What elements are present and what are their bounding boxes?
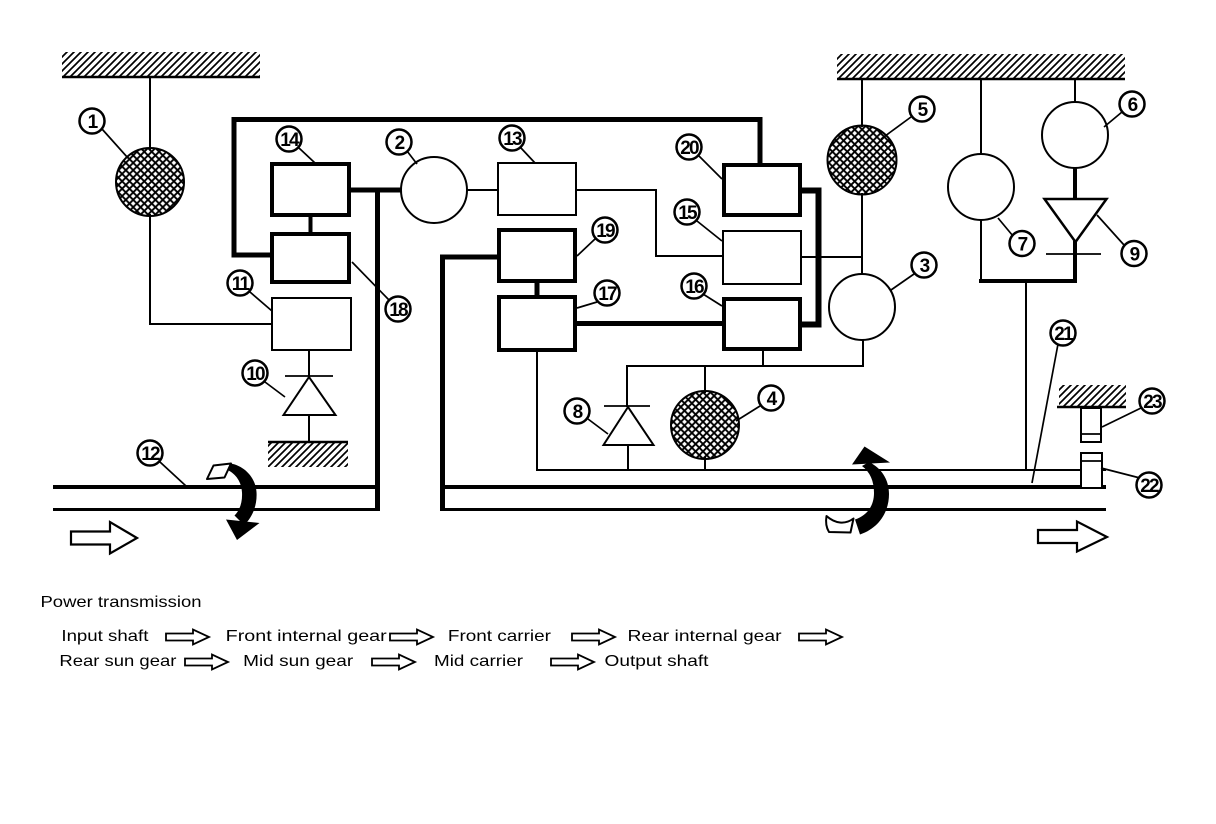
leader 22 [1101, 468, 1140, 478]
leader 4 [736, 406, 760, 421]
leader 23 [1102, 408, 1141, 427]
label 17 [595, 281, 620, 306]
input shaft 12 top line [53, 485, 379, 489]
wire wall to clutch 1 [149, 77, 151, 150]
legend arrow r2a1 [185, 655, 228, 670]
wall hatch small right [1057, 385, 1126, 407]
svg-text:14: 14 [280, 130, 300, 151]
svg-text:Rear sun gear: Rear sun gear [59, 653, 177, 670]
wire wall to circle 6 [1074, 79, 1076, 103]
block arrow input [71, 522, 137, 554]
svg-text:13: 13 [503, 129, 522, 150]
leader 12 [160, 462, 186, 486]
wall hatch top-right [837, 54, 1125, 79]
bearing block 22 [1081, 453, 1102, 488]
svg-text:23: 23 [1143, 392, 1162, 413]
svg-text:Rear internal gear: Rear internal gear [628, 628, 783, 645]
label 23 [1140, 389, 1165, 414]
svg-text:Mid carrier: Mid carrier [434, 653, 524, 670]
wire clutch 4 top stub [704, 366, 706, 393]
leader 2 [407, 151, 417, 164]
box 16 [724, 299, 800, 349]
one-way clutch 9 [1045, 199, 1107, 254]
svg-text:16: 16 [685, 277, 704, 298]
box 15 [723, 231, 801, 284]
label 20 [677, 135, 702, 160]
legend arrow r1a1 [166, 630, 209, 645]
svg-text:18: 18 [389, 300, 408, 321]
wire wall to clutch 5 [861, 79, 863, 127]
wire mid collector y366 [627, 366, 864, 407]
box 14 [272, 164, 349, 215]
circle 2 [401, 157, 467, 223]
one-way clutch 10 [284, 351, 336, 443]
label 2 [387, 130, 412, 155]
block arrow output [1038, 522, 1107, 552]
label 11 [228, 271, 253, 296]
rotation arrow output shaft [826, 447, 890, 535]
wire circle 2 to box 13 [465, 189, 498, 191]
wire joining circle 7 and clutch 9 [979, 279, 1077, 283]
svg-text:8: 8 [573, 402, 583, 423]
svg-text:12: 12 [141, 444, 160, 465]
svg-text:3: 3 [920, 256, 930, 277]
wire box 16 bottom stub [762, 351, 764, 366]
label 6 [1120, 92, 1145, 117]
wire node down to output shaft line [1025, 281, 1027, 470]
box 20 [724, 165, 800, 215]
label 22 [1137, 473, 1162, 498]
svg-text:Input shaft: Input shaft [61, 628, 149, 645]
svg-text:2: 2 [395, 133, 405, 154]
thick bracket box 20 to box 16 [802, 191, 819, 325]
svg-text:11: 11 [232, 274, 251, 295]
legend arrow r2a2 [372, 655, 415, 670]
input shaft 12 bottom line [53, 508, 379, 511]
leader 7 [998, 218, 1013, 236]
box 11 [272, 298, 351, 350]
output shaft bottom line [443, 508, 1106, 511]
clutch 5 crosshatched [828, 126, 897, 195]
wire circle 7 down [980, 219, 982, 283]
label 3 [912, 253, 937, 278]
svg-text:19: 19 [596, 221, 615, 242]
label 5 [910, 97, 935, 122]
svg-text:Power transmission: Power transmission [41, 594, 202, 611]
wire box 15 to node x862 [802, 256, 863, 258]
output shaft top line [440, 485, 1106, 489]
leader 19 [577, 239, 595, 256]
svg-text:Front carrier: Front carrier [448, 628, 552, 645]
stub box 19 to box 17 [535, 282, 540, 297]
clutch 4 crosshatched [671, 391, 739, 459]
label 16 [682, 274, 707, 299]
leader 16 [703, 294, 722, 306]
leader 21 [1032, 344, 1058, 483]
label 19 [593, 218, 618, 243]
label 8 [565, 399, 590, 424]
wire horizontal collector above output shaft [536, 469, 1106, 471]
wall hatch top-left [62, 52, 260, 77]
leader 5 [881, 117, 911, 139]
leader 14 [299, 148, 315, 163]
thick vertical output shaft left end to box 19 [443, 257, 499, 511]
label 9 [1122, 241, 1147, 266]
leader 8 [588, 419, 608, 434]
label 18 [386, 297, 411, 322]
box 13 [498, 163, 576, 215]
svg-text:20: 20 [680, 138, 699, 159]
svg-text:17: 17 [598, 284, 617, 305]
box 17 [499, 297, 575, 350]
rotation arrow input shaft [207, 464, 260, 541]
wire one-way clutch 8 bottom stub [627, 445, 629, 470]
thick vertical to input shaft end [375, 188, 380, 511]
one-way clutch 8 [604, 406, 654, 445]
label 21 [1051, 321, 1076, 346]
svg-text:7: 7 [1018, 235, 1028, 256]
leader 15 [697, 221, 722, 241]
leader 20 [699, 156, 722, 179]
svg-text:Front internal gear: Front internal gear [226, 628, 388, 645]
leader 1 [102, 129, 128, 158]
wire box 17 down [536, 352, 538, 470]
leader 10 [265, 382, 285, 397]
wire clutch 4 bottom stub [704, 457, 706, 470]
svg-text:9: 9 [1130, 245, 1140, 266]
wire clutch 5 to circle 3 [861, 193, 863, 275]
circle 6 [1042, 102, 1108, 168]
wire box 13 to box 15 [577, 190, 722, 256]
thick frame from box 18 over top to box 20 [234, 120, 760, 256]
clutch 1 crosshatched [116, 148, 184, 216]
svg-text:6: 6 [1128, 95, 1138, 116]
bearing block 23 [1081, 408, 1101, 442]
leader 6 [1104, 112, 1122, 127]
label 15 [675, 200, 700, 225]
thick wire box 17 to box 16 [577, 321, 722, 326]
circle 3 [829, 274, 895, 340]
label 13 [500, 126, 525, 151]
svg-text:21: 21 [1054, 324, 1074, 345]
leader 11 [250, 292, 272, 311]
leader 3 [891, 274, 914, 290]
label 14 [277, 127, 302, 152]
legend arrow r1a2 [390, 630, 433, 645]
svg-text:10: 10 [246, 364, 265, 385]
wire clutch 1 to box 11 [150, 214, 271, 324]
label 4 [759, 386, 784, 411]
leader 9 [1097, 215, 1124, 245]
wire wall to circle 7 [980, 79, 982, 155]
label 10 [243, 361, 268, 386]
legend arrow r2a3 [551, 655, 594, 670]
label 1 [80, 109, 105, 134]
svg-text:Mid sun gear: Mid sun gear [243, 653, 354, 670]
ground hatch under triangle 10 [268, 442, 348, 467]
leader 17 [577, 302, 597, 308]
circle 7 [948, 154, 1014, 220]
box 19 [499, 230, 575, 281]
wire one-way clutch 9 down [1073, 241, 1077, 283]
box 18 [272, 234, 349, 282]
svg-text:22: 22 [1140, 476, 1159, 497]
wire circle 6 to one-way clutch 9 [1073, 167, 1077, 200]
legend arrow r1a4 [799, 630, 842, 645]
thick wire box 14 to circle 2 [351, 188, 402, 193]
svg-text:15: 15 [678, 203, 698, 224]
label 7 [1010, 231, 1035, 256]
leader 18 [352, 262, 389, 300]
leader 13 [521, 148, 535, 163]
legend arrow r1a3 [572, 630, 615, 645]
label 12 [138, 441, 163, 466]
stub box 14 to box 18 [309, 216, 313, 233]
svg-text:Output shaft: Output shaft [605, 653, 710, 670]
wire circle 3 down stub [862, 339, 864, 366]
